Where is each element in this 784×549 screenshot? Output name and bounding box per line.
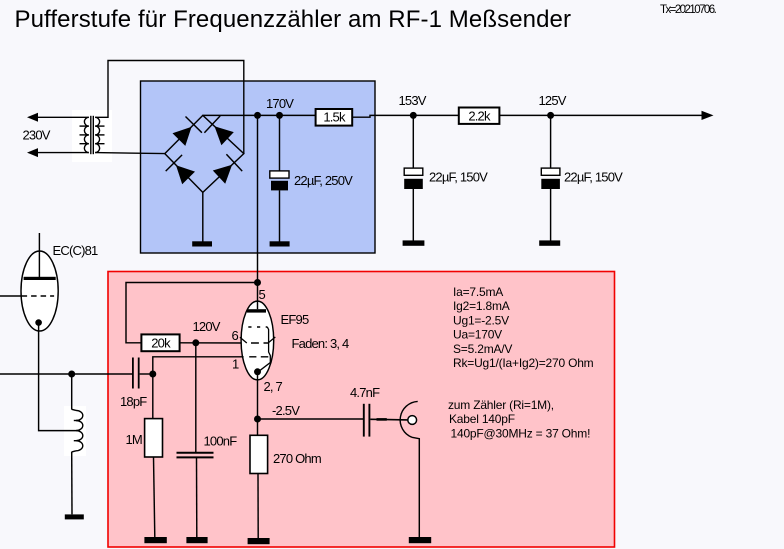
wire: bridge bottom to ground (202, 192, 204, 241)
resistor R4 1M (145, 419, 163, 457)
arrow mains top (27, 113, 38, 122)
grid g2 (dashed) pin 6 (251, 342, 269, 344)
wire: EC(C)81 grid input (0, 295, 21, 297)
svg-text:140pF@30MHz = 37 Ohm!: 140pF@30MHz = 37 Ohm! (451, 427, 591, 441)
capacitor C2 22uF 150V (404, 168, 423, 189)
grid (dashed) (22, 295, 55, 297)
operating point text block (453, 285, 594, 370)
wire: 18pF to grid node (140, 373, 153, 375)
power supply block (blue region) (141, 81, 376, 253)
svg-text:18pF: 18pF (120, 394, 147, 409)
tube V1 EC(C)81 (21, 233, 58, 331)
buffer stage block (pink region) (108, 272, 615, 548)
capacitor C3 22uF 150V (541, 168, 560, 189)
ground (C3) (539, 240, 560, 245)
wire: input rail (0, 373, 132, 375)
wire: g1 to grid node (153, 357, 244, 374)
capacitor C1 22uF 250V (270, 171, 289, 191)
wire: node to Rk (257, 419, 259, 435)
ground (bridge) (192, 241, 212, 246)
transformer TR1 (80, 116, 105, 154)
svg-text:Kabel 140pF: Kabel 140pF (449, 412, 515, 426)
wire: Rk to ground (257, 474, 259, 539)
wire: 100nF to ground (196, 457, 198, 537)
svg-text:Pufferstufe für Frequenzzähler: Pufferstufe für Frequenzzähler am RF-1 M… (15, 6, 572, 33)
grid g3 (dotted) (248, 326, 267, 328)
capacitor C5 100nF (177, 453, 214, 458)
g3 to cathode link (259, 327, 271, 371)
svg-text:zum Zähler (Ri=1M),: zum Zähler (Ri=1M), (448, 398, 554, 412)
svg-text:1M: 1M (126, 432, 142, 447)
wire: C3 branch (550, 115, 552, 168)
resistor R2 2.2k (459, 108, 500, 124)
wire: BNC shield to ground (412, 437, 419, 537)
svg-text:-2.5V: -2.5V (272, 403, 300, 418)
node 170V (anode feed) (254, 112, 261, 119)
svg-text:20k: 20k (151, 335, 171, 350)
svg-text:6: 6 (232, 328, 239, 343)
svg-text:100nF: 100nF (204, 434, 238, 449)
wire: coil bottom to ground (71, 452, 73, 515)
node 153V (410, 112, 417, 119)
ground (C2) (403, 240, 425, 245)
svg-text:22µF, 250V: 22µF, 250V (294, 173, 353, 188)
anode plate (247, 309, 266, 312)
svg-text:Ig2=1.8mA: Ig2=1.8mA (453, 299, 510, 313)
svg-text:1: 1 (232, 357, 239, 372)
svg-text:22µF, 150V: 22µF, 150V (429, 170, 488, 185)
ground (1M) (144, 537, 166, 543)
svg-text:125V: 125V (539, 93, 567, 108)
svg-text:EF95: EF95 (281, 312, 309, 327)
bridge rectifier diamond (165, 115, 244, 192)
svg-text:Ug1=-2.5V: Ug1=-2.5V (453, 313, 509, 327)
white backing behind transformer (72, 110, 112, 162)
wire: grid node to 1M (152, 374, 154, 419)
inductor L1 (tapped coil) (72, 409, 83, 452)
wire: 20k to EF95 grid2 (180, 342, 247, 344)
svg-text:4.7nF: 4.7nF (350, 385, 380, 400)
wire: C3 to ground (550, 189, 552, 241)
svg-text:170V: 170V (266, 96, 294, 111)
wire overdraw segment (377, 418, 387, 421)
diode D4 (bottom-right) (213, 154, 242, 183)
wire: C2 branch (412, 115, 414, 168)
arrow rail output (702, 111, 714, 120)
diode D1 (top-left) (173, 117, 202, 146)
anode stub wire (38, 233, 40, 277)
svg-text:5: 5 (259, 287, 266, 302)
secondary winding (95, 117, 99, 152)
svg-text:S=5.2mA/V: S=5.2mA/V (453, 342, 512, 356)
cathode dot (35, 319, 42, 326)
capacitor C4 18pF (133, 358, 139, 389)
grid g1 (dashed) pin 1 (249, 356, 268, 358)
svg-text:Faden: 3, 4: Faden: 3, 4 (292, 336, 350, 351)
wire: transformer secondary top loop to bridge right vertex (95, 61, 244, 154)
wire: node to coil top (71, 374, 73, 410)
svg-text:Tx=20210706.: Tx=20210706. (660, 4, 717, 16)
tube V2 EF95 (240, 283, 275, 380)
wire: cathode to -2.5V node (257, 372, 259, 419)
node 170V (cap branch) (276, 112, 283, 119)
connector J1 BNC (400, 401, 418, 437)
anode plate (24, 277, 56, 280)
wire: transformer secondary bottom to bridge left vertex (95, 153, 165, 154)
wire: mains top lead (35, 116, 89, 118)
resistor R3 20k (141, 334, 179, 351)
anode wire pin 5 (257, 283, 259, 310)
primary winding (84, 117, 88, 152)
resistor R5 270 Ohm (250, 435, 268, 473)
ground (BNC) (409, 537, 431, 543)
resistor R1 1.5k (316, 109, 353, 126)
svg-text:Rk=Ug1/(Ia+Ig2)=270 Ohm: Rk=Ug1/(Ia+Ig2)=270 Ohm (453, 356, 594, 370)
diode D2 (top-right) (204, 116, 233, 145)
node grid (149, 371, 156, 378)
wire: -2.5V node to coupling cap (258, 418, 364, 420)
svg-text:2.2k: 2.2k (468, 109, 491, 124)
node anode/screen junction (254, 279, 261, 286)
wire: mains bottom lead (35, 152, 89, 154)
svg-text:2, 7: 2, 7 (264, 379, 283, 394)
node -2.5V (254, 416, 261, 423)
wire: 170V node down to EF95 anode node (257, 115, 259, 282)
wire: C2 to ground (412, 189, 414, 241)
wire: cap to BNC pin (370, 418, 408, 421)
node (input/coil) (68, 371, 75, 378)
svg-text:230V: 230V (23, 128, 51, 143)
svg-text:EC(C)81: EC(C)81 (53, 243, 99, 258)
capacitor C6 4.7nF (364, 404, 370, 437)
wire: HT rail 170V to output arrow (203, 114, 352, 116)
node 120V (192, 339, 199, 346)
ground (coil) (65, 514, 84, 519)
svg-text:120V: 120V (193, 319, 221, 334)
svg-text:Ia=7.5mA: Ia=7.5mA (453, 285, 503, 299)
arrow mains bottom (27, 148, 38, 157)
wire: 1M to ground (154, 457, 155, 537)
svg-text:Ua=170V: Ua=170V (453, 328, 502, 342)
node 125V (547, 112, 554, 119)
svg-text:1.5k: 1.5k (323, 110, 346, 125)
svg-text:22µF, 150V: 22µF, 150V (564, 170, 623, 185)
svg-text:153V: 153V (399, 93, 427, 108)
cathode dot pins 2,7 (254, 368, 261, 375)
white backing behind inductor (64, 406, 86, 456)
ground (Rk) (248, 538, 270, 544)
wire: cap C1 branch (279, 115, 281, 171)
core (90, 116, 92, 154)
ground (C1) (270, 241, 290, 246)
diode D3 (bottom-left) (166, 155, 195, 184)
wire: C1 to ground (279, 190, 281, 241)
ground (100nF) (186, 537, 207, 543)
wire: EC(C)81 cathode to coil tap (39, 323, 78, 431)
output note text block (448, 398, 590, 441)
svg-text:270 Ohm: 270 Ohm (273, 451, 321, 466)
wire: 120V node to 100nF (195, 343, 197, 453)
wire: screen feed loop to 20k (126, 283, 258, 343)
